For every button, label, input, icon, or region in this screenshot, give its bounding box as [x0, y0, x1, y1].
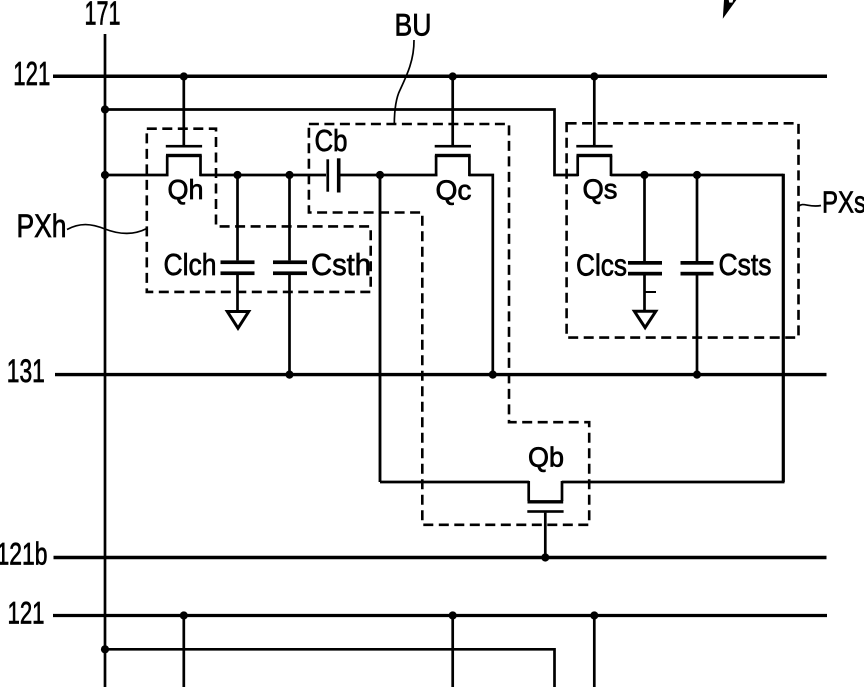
svg-text:PXs: PXs [822, 186, 864, 220]
svg-text:Clch: Clch [164, 247, 217, 282]
svg-text:121b: 121b [0, 536, 48, 572]
svg-text:131: 131 [7, 353, 45, 389]
svg-text:121: 121 [8, 594, 45, 630]
svg-text:Cb: Cb [315, 124, 348, 158]
svg-text:PXh: PXh [17, 208, 67, 244]
svg-text:Csts: Csts [719, 247, 772, 282]
svg-text:Clcs: Clcs [576, 248, 627, 283]
svg-text:BU: BU [395, 6, 432, 42]
svg-text:Qh: Qh [168, 174, 204, 205]
svg-text:Qb: Qb [528, 442, 564, 473]
svg-text:Qs: Qs [583, 174, 618, 205]
svg-text:Qc: Qc [436, 175, 472, 206]
svg-text:Csth: Csth [311, 247, 371, 282]
svg-text:121: 121 [13, 55, 50, 92]
svg-text:171: 171 [85, 0, 121, 32]
